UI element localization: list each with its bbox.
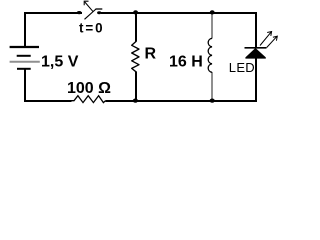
switch S1 left contact dot [77, 11, 82, 14]
wire top right segment [101, 12, 257, 14]
battery B1 bottom plate [17, 68, 31, 70]
wire bottom left segment [24, 100, 72, 102]
wire inductor branch upper (gray) [211, 14, 213, 39]
wire resistor R branch lower [135, 72, 137, 101]
switch S1 motion arrow shaft [85, 2, 93, 11]
svg-text:t = 0: t = 0 [79, 21, 103, 36]
wire bottom right segment [106, 100, 258, 102]
battery B1 short plate [17, 55, 31, 57]
LED D1 cathode bar [245, 47, 267, 49]
switch S1 contact tick [96, 8, 103, 10]
wire left vertical upper [24, 12, 26, 47]
battery B1 long plate gray [10, 61, 40, 63]
svg-text:LED: LED [229, 60, 255, 75]
node junction dot bottom L branch [210, 99, 215, 103]
resistor R2 zigzag 100 ohm [72, 96, 106, 103]
LED D1 light emission arrow 2 [267, 36, 278, 47]
svg-text:100 Ω: 100 Ω [67, 80, 111, 97]
wire resistor R branch upper [135, 12, 137, 42]
svg-text:1,5 V: 1,5 V [41, 54, 79, 71]
node junction dot top L branch [210, 10, 215, 14]
wire LED branch lower [255, 58, 257, 102]
LED D1 light emission arrow 1 [260, 32, 272, 46]
node junction dot bottom R branch [133, 99, 138, 103]
resistor R zigzag [132, 42, 139, 72]
switch S1 right contact dot [97, 11, 101, 14]
wire left vertical lower [24, 70, 26, 103]
inductor L1 coil [208, 38, 212, 72]
switch S1 arm [85, 9, 97, 19]
node junction dot top R branch [133, 10, 138, 14]
wire top left segment [24, 12, 82, 14]
wire LED branch upper [255, 12, 257, 47]
svg-text:R: R [145, 46, 157, 63]
battery B1 long plate top [10, 46, 39, 48]
svg-text:16 H: 16 H [169, 53, 203, 70]
wire inductor branch lower (gray) [211, 72, 213, 99]
LED D1 triangle [246, 48, 266, 58]
switch S1 motion arrow head [84, 1, 88, 5]
